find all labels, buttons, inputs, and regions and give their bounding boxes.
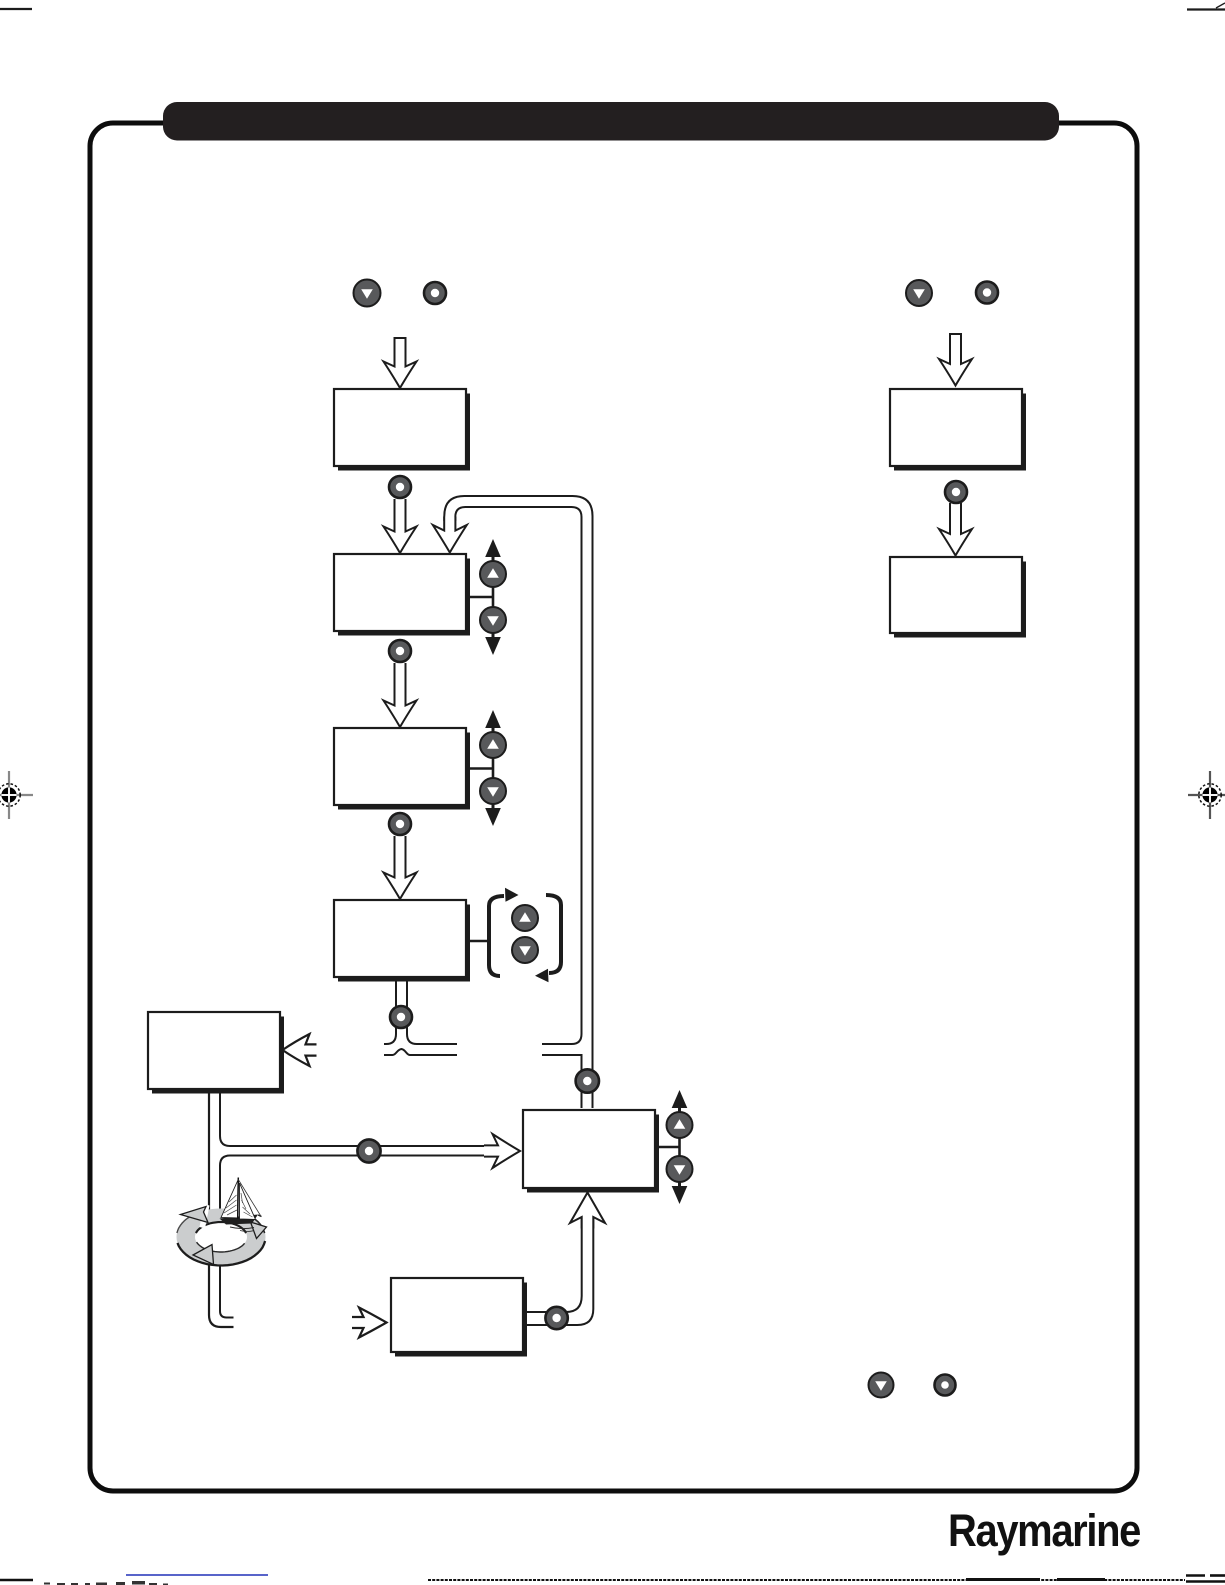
svg-text:Raymarine: Raymarine [948, 1505, 1140, 1556]
